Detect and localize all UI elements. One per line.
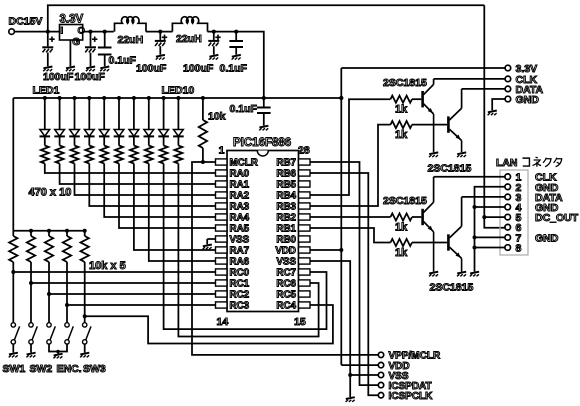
terminal ICSPDAT: [378, 381, 431, 392]
wire RB7 to ICSPDAT: [310, 162, 378, 385]
svg-text:PIC16F886: PIC16F886: [233, 137, 291, 149]
LED D9: [158, 98, 169, 136]
svg-text:1k: 1k: [395, 222, 408, 234]
wire R18 to Q2 base: [412, 124, 447, 126]
resistor R4 470: [85, 136, 93, 163]
svg-text:0.1uF: 0.1uF: [220, 62, 248, 74]
resistor R17 1k: [391, 96, 413, 103]
terminal GND: [505, 94, 539, 106]
ground (C2): [86, 67, 95, 72]
pin 4 RA2: [216, 191, 250, 202]
wire R19 to Q3 base: [412, 216, 421, 218]
svg-text:22uH: 22uH: [176, 33, 202, 45]
wire LED3 to pin: [75, 164, 216, 196]
label Q2 2SC1815: [428, 163, 472, 175]
svg-text:LED1: LED1: [33, 85, 60, 97]
switch SW2: [29, 323, 38, 344]
terminal CLK: [505, 74, 537, 86]
LED D4: [84, 98, 95, 136]
label C6 0.1uF: [220, 62, 248, 74]
connector box LAN: [500, 170, 528, 255]
wire RB4 to Q1 base: [310, 99, 391, 195]
node switch tap 2: [29, 281, 33, 285]
LED D8: [144, 98, 155, 136]
svg-text:2SC1815: 2SC1815: [428, 163, 472, 175]
svg-text:100uF: 100uF: [183, 62, 214, 74]
wire VPP riser: [192, 162, 378, 355]
label pin 1: [219, 145, 225, 157]
svg-text:RC3: RC3: [230, 301, 250, 312]
terminal ICSPCLK: [378, 391, 433, 402]
pin 7 RA5: [216, 224, 250, 235]
transistor Q2 2SC1815: [448, 89, 461, 152]
wire switch column 1: [12, 262, 14, 323]
ground (switch 1): [26, 353, 35, 358]
svg-text:28: 28: [298, 145, 310, 157]
pin 16 RC4: [276, 301, 310, 312]
pin 18 RC6: [276, 279, 310, 290]
label Q1 2SC1815: [383, 77, 427, 89]
node LED bus junction 2: [58, 96, 62, 100]
wire L1 to L2: [146, 31, 172, 33]
wire encoder common drop: [57, 352, 59, 354]
capacitor C5 100uF: [208, 32, 220, 55]
pin 1 MCLR: [216, 158, 258, 169]
capacitor C6 0.1uF: [229, 32, 243, 55]
wire LAN pin1 CLK: [434, 176, 506, 178]
node LAN DC_OUT: [482, 215, 486, 219]
node input junction: [46, 30, 50, 34]
label LAN DC_OUT: [535, 212, 579, 224]
capacitor C4 100uF: [155, 32, 167, 55]
pin 11 RC0: [216, 268, 250, 279]
LED D2: [54, 98, 65, 136]
svg-text:SW2: SW2: [30, 363, 53, 375]
node LED bus junction 10: [176, 96, 180, 100]
node 0.1uF junction: [103, 30, 107, 34]
svg-text:RB1: RB1: [276, 224, 296, 235]
svg-text:0.1uF: 0.1uF: [230, 103, 258, 115]
transistor Q4 2SC1815: [448, 197, 461, 271]
ground (VSS net): [346, 397, 355, 402]
label LAN DATA: [535, 192, 563, 204]
op-amp U1 PIC16F886 body: [227, 151, 299, 312]
node pull-up bus junction 4: [65, 229, 69, 233]
resistor R18 1k: [391, 121, 413, 128]
terminal VPP/MCLR: [378, 351, 441, 362]
ground (regulator): [66, 67, 75, 72]
node reg output junction: [89, 30, 93, 34]
label L1 22uH: [118, 34, 144, 46]
LAN pin 6: [505, 222, 522, 234]
pin 27 RB5: [276, 180, 310, 191]
wire LAN pin8 gnd: [475, 247, 506, 249]
pin 20 VSS: [276, 257, 310, 268]
resistor R14 10k: [45, 231, 53, 262]
wire LAN pin4 gnd: [475, 206, 506, 208]
svg-text:RB2: RB2: [276, 213, 296, 224]
pin 17 RC5: [276, 290, 310, 301]
ground (VSS pin 8): [203, 245, 212, 250]
resistor R10 470: [174, 136, 182, 163]
switch SW1: [11, 323, 20, 344]
LAN pin 3: [505, 192, 522, 204]
svg-text:1k: 1k: [395, 129, 408, 141]
pin 8 VSS: [216, 235, 250, 246]
inductor L2 22uH: [172, 17, 207, 32]
wire switch column 5: [84, 262, 86, 323]
wire R17 to Q1 base: [412, 98, 421, 100]
wire RB1 to Q4 base: [310, 228, 391, 243]
svg-text:GND: GND: [516, 94, 540, 106]
svg-text:10k: 10k: [208, 111, 226, 123]
label Q4 2SC1815: [430, 282, 474, 294]
svg-text:RC0: RC0: [230, 268, 250, 279]
node 10k tap: [201, 96, 205, 100]
node LAN gnd 4: [473, 205, 477, 209]
capacitor C1 100uF (input): [42, 32, 54, 67]
svg-text:RC5: RC5: [276, 290, 296, 301]
pin 3 RA1: [216, 180, 250, 191]
wire LED5 to pin: [104, 164, 215, 218]
label R11 10k: [208, 111, 226, 123]
terminal DATA: [505, 84, 543, 96]
label pin 14: [217, 316, 229, 328]
svg-text:3.3V: 3.3V: [60, 14, 84, 26]
resistor R20 1k: [391, 239, 413, 246]
wire left pull-up feed: [12, 98, 14, 231]
wire 3.3V LED bus: [13, 97, 263, 99]
label LAN connector: [496, 157, 562, 169]
svg-text:1k: 1k: [395, 247, 408, 259]
svg-text:RA1: RA1: [230, 180, 250, 191]
ground (Q3 emitter): [429, 272, 438, 277]
wire 3.3V to terminal: [341, 67, 505, 69]
svg-text:RB7: RB7: [276, 158, 296, 169]
ground (Q4 emitter): [457, 272, 466, 277]
wire switch 3 signal: [49, 293, 216, 295]
resistor R8 470: [145, 136, 153, 163]
label R18 1k: [395, 129, 408, 141]
label ENC.: [57, 363, 82, 375]
ground (C6): [232, 55, 241, 60]
wire switch 4 signal: [67, 304, 216, 306]
svg-text:22uH: 22uH: [118, 34, 144, 46]
wire VSS pin 8 stub: [207, 239, 215, 244]
label SW3: [83, 363, 106, 375]
ground (switch 0): [9, 353, 18, 358]
pin 26 RB4: [276, 191, 310, 202]
capacitor C7 0.1uF (PIC): [257, 98, 271, 126]
resistor R12 10k: [9, 231, 17, 262]
wire VDD riser (3.3V net): [340, 68, 342, 365]
label LAN GND: [535, 232, 559, 244]
LED D5: [99, 98, 110, 136]
node VDD riser top junction: [339, 96, 343, 100]
label SW2: [30, 363, 53, 375]
node VDD pin junction: [339, 248, 343, 252]
wire VDD pin stub: [310, 249, 341, 251]
LAN pin 4: [505, 202, 522, 214]
pin 23 RB1: [276, 224, 310, 235]
label U1 PIC16F886: [233, 137, 291, 149]
node pull-up bus junction 3: [47, 229, 51, 233]
svg-text:LED10: LED10: [162, 85, 195, 97]
pin 13 RC2: [216, 290, 250, 301]
label 10k x 5: [89, 260, 126, 272]
resistor R3 470: [71, 136, 79, 163]
resistor R13 10k: [27, 231, 35, 262]
ground (C7): [259, 126, 268, 131]
label LAN GND: [535, 202, 559, 214]
wire switch column 4: [66, 262, 68, 323]
resistor R2 470: [56, 136, 64, 163]
label R17 1k: [395, 104, 408, 116]
node 3.3V bus to VDD riser: [339, 96, 343, 100]
LED D1: [40, 98, 51, 136]
ground (C3): [100, 67, 109, 72]
wire R20 to Q4 base: [412, 242, 447, 244]
node pull-up bus junction 5: [83, 229, 87, 233]
LED D3: [69, 98, 80, 136]
wire MCLR to pin: [203, 161, 216, 163]
pin 14 RC3: [216, 301, 250, 312]
pin 25 RB3: [276, 202, 310, 213]
terminal VSS: [378, 371, 409, 382]
terminal 3.3V: [505, 63, 537, 75]
svg-text:1: 1: [219, 145, 225, 157]
pin 9 RA7: [216, 246, 250, 257]
svg-text:G: G: [72, 37, 80, 48]
wire DC15V down to LAN DC_OUT pins: [484, 5, 505, 228]
wire ICSP VDD: [341, 364, 378, 366]
svg-text:RA5: RA5: [230, 224, 250, 235]
svg-text:I: I: [61, 26, 64, 37]
svg-text:VSS: VSS: [230, 235, 250, 246]
svg-text:14: 14: [217, 316, 229, 328]
label LAN CLK: [535, 172, 557, 184]
inductor L1 22uH: [115, 17, 147, 32]
resistor R5 470: [100, 136, 108, 163]
svg-text:LAN: LAN: [496, 158, 517, 169]
LAN pin 5: [505, 212, 522, 224]
capacitor C3 0.1uF: [98, 32, 112, 67]
svg-text:2SC1815: 2SC1815: [383, 195, 427, 207]
wire switch 1 signal: [13, 271, 215, 273]
pin 6 RA4: [216, 213, 250, 224]
label R20 1k: [395, 247, 408, 259]
node MCLR junction: [201, 160, 205, 164]
svg-text:100uF: 100uF: [75, 71, 106, 83]
resistor R15 10k: [63, 231, 71, 262]
wire LED10 cross-under to RC6: [178, 164, 318, 337]
svg-text:RA4: RA4: [230, 213, 250, 224]
wire RB3 to Q2 base: [310, 125, 391, 206]
wire L2 to corner: [208, 32, 264, 98]
wire LED7 to pin: [134, 164, 216, 251]
wire GND terminal: [492, 99, 505, 110]
wire LAN pin5 DC_OUT: [484, 216, 505, 218]
pin 10 RA6: [216, 257, 250, 268]
wire LAN pin3 DATA: [462, 196, 506, 198]
wire SW3 signal cross-under to RC4: [85, 305, 333, 344]
label L2 22uH: [176, 33, 202, 45]
svg-text:RC1: RC1: [230, 279, 250, 290]
ground (switch 4): [80, 353, 89, 358]
wire DATA line: [462, 88, 506, 90]
wire switch column 2: [30, 262, 32, 323]
pin 24 RB2: [276, 213, 310, 224]
svg-text:RC7: RC7: [276, 268, 296, 279]
wire regulator ground pin: [69, 40, 71, 66]
terminal J1 DC15V input: [9, 16, 43, 35]
label Q3 2SC1815: [383, 195, 427, 207]
wire LED6 to pin: [119, 164, 216, 229]
wire LED8 to pin: [149, 164, 216, 262]
svg-text:MCLR: MCLR: [230, 158, 258, 169]
label LED10: [162, 85, 195, 97]
label SW1: [3, 363, 26, 375]
svg-text:RB0: RB0: [276, 235, 296, 246]
ground (C1): [43, 67, 52, 72]
terminal VDD: [378, 361, 409, 372]
svg-text:8: 8: [516, 243, 522, 255]
pin 19 RC7: [276, 268, 310, 279]
ground (encoder): [53, 354, 62, 359]
svg-text:RA6: RA6: [230, 257, 250, 268]
label C1 100uF: [43, 71, 74, 83]
resistor R11 10k: [199, 98, 207, 162]
ground (Q1 emitter): [429, 152, 438, 157]
svg-text:15: 15: [294, 316, 306, 328]
wire LAN gnd bus: [475, 187, 506, 272]
svg-text:RB3: RB3: [276, 202, 296, 213]
svg-text:100uF: 100uF: [136, 62, 167, 74]
wire RB2 to Q3 base: [310, 216, 391, 218]
transistor Q1 2SC1815: [423, 79, 434, 152]
capacitor C2 100uF: [85, 32, 97, 67]
resistor R19 1k: [391, 213, 413, 220]
regulator U2 3.3V: [60, 14, 85, 49]
pin 5 RA3: [216, 202, 250, 213]
node switch tap 3: [47, 292, 51, 296]
label 470 x 10: [29, 187, 72, 199]
ground (GND terminal): [488, 111, 497, 116]
wire switch 2 signal: [31, 282, 216, 284]
node LAN gnd 8: [473, 246, 477, 250]
wire switch 1 to ground: [30, 344, 32, 352]
wire LAN pin7 gnd: [475, 236, 506, 238]
LED D7: [129, 98, 140, 136]
node VSS ICSP junction: [348, 373, 352, 377]
svg-text:470 x 10: 470 x 10: [29, 187, 72, 199]
wire switch 0 to ground: [12, 344, 14, 352]
ground (C4): [156, 55, 165, 60]
wire ICSP VSS stub: [350, 374, 378, 376]
transistor Q3 2SC1815: [423, 177, 434, 272]
label LED1: [33, 85, 60, 97]
svg-text:VDD: VDD: [275, 246, 296, 257]
resistor R7 470: [130, 136, 138, 163]
wire regulator output: [83, 31, 114, 33]
wire switch 4 to ground: [84, 344, 86, 352]
resistor R16 10k: [81, 231, 89, 262]
node encoder common: [56, 350, 60, 354]
node switch tap 4: [65, 303, 69, 307]
svg-text:RC4: RC4: [276, 301, 296, 312]
svg-text:100uF: 100uF: [43, 71, 74, 83]
svg-text:RB4: RB4: [276, 191, 296, 202]
svg-text:RA0: RA0: [230, 169, 250, 180]
wire 3.3V to VDD riser: [264, 97, 342, 99]
svg-text:GND: GND: [535, 232, 559, 244]
LED D6: [114, 98, 125, 136]
node L2 output junction: [212, 30, 216, 34]
wire LED4 to pin: [89, 164, 215, 207]
ground (LAN): [470, 272, 479, 277]
svg-text:0.1uF: 0.1uF: [109, 55, 137, 67]
svg-text:2SC1815: 2SC1815: [430, 282, 474, 294]
switch SW3: [83, 323, 92, 344]
pin 29 RB7: [276, 158, 310, 169]
wire switch column 3: [48, 262, 50, 323]
svg-text:SW1: SW1: [3, 363, 26, 375]
LAN pin 8: [505, 243, 522, 255]
switch ENC-B: [65, 323, 74, 344]
pin 22 RB0: [276, 235, 310, 246]
svg-text:DC15V: DC15V: [9, 16, 43, 28]
wire encoder common: [49, 344, 67, 351]
svg-text:RC2: RC2: [230, 290, 250, 301]
node 3.3V bus junction: [262, 96, 266, 100]
label pin 15: [294, 316, 306, 328]
label C5 100uF: [183, 62, 214, 74]
ground (C5): [209, 55, 218, 60]
svg-text:10k x 5: 10k x 5: [89, 260, 126, 272]
wire pull-up bus: [13, 230, 84, 232]
LAN pin 1: [505, 172, 522, 184]
svg-text:VSS: VSS: [276, 257, 296, 268]
svg-text:SW3: SW3: [83, 363, 106, 375]
wire VSS net: [310, 261, 350, 397]
LAN pin 2: [505, 182, 522, 194]
switch ENC-A: [47, 323, 56, 344]
wire DC15V riser to top rail: [48, 5, 485, 31]
node LED bus junction 8: [147, 96, 151, 100]
wire DC15V input to regulator: [14, 31, 59, 33]
svg-text:ICSPCLK: ICSPCLK: [389, 391, 434, 402]
svg-text:RA2: RA2: [230, 191, 250, 202]
node switch tap 5: [83, 314, 87, 318]
svg-text:RB5: RB5: [276, 180, 296, 191]
resistor R1 470: [41, 136, 49, 163]
node LED bus junction 3: [73, 96, 77, 100]
node L1 output junction: [158, 30, 162, 34]
svg-text:RC6: RC6: [276, 279, 296, 290]
node LED bus junction 4: [87, 96, 91, 100]
node LED bus junction 6: [117, 96, 121, 100]
node LED bus junction 7: [132, 96, 136, 100]
wire LED2 to pin: [60, 164, 216, 185]
pin 28 RB6: [276, 169, 310, 180]
ground (Q2 emitter): [457, 152, 466, 157]
label LAN GND: [535, 182, 559, 194]
node LED bus junction 9: [162, 96, 166, 100]
node pull-up bus junction 2: [29, 229, 33, 233]
wire CLK line: [434, 78, 506, 80]
resistor R6 470: [115, 136, 123, 163]
svg-text:RB6: RB6: [276, 169, 296, 180]
